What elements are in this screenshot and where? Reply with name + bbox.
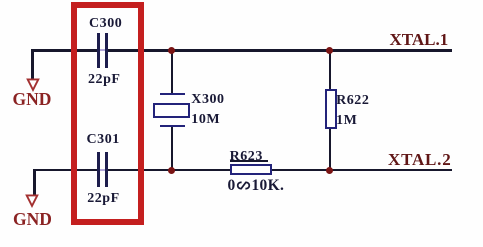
wire: drop to bottom GND — [33, 169, 36, 196]
crystal X300 body — [153, 103, 190, 118]
resistor R622 value 1M — [336, 114, 357, 128]
junction dot bottom crystal — [168, 167, 175, 174]
resistor R622 body — [325, 89, 337, 129]
wire: crystal branch upper stub — [171, 50, 174, 94]
ground symbol top (triangle) — [24, 77, 42, 93]
red highlight rectangle — [71, 2, 144, 225]
resistor R623 value tilde symbol — [236, 181, 251, 190]
crystal X300 label — [191, 93, 224, 107]
resistor R623 label (underlined) — [230, 150, 263, 164]
ground label top GND — [13, 91, 52, 109]
wire: XTAL2 net, bottom horizontal segment 2 — [106, 169, 230, 172]
junction dot top R622 — [326, 47, 333, 54]
junction dot top crystal — [168, 47, 175, 54]
capacitor C300 label — [89, 17, 122, 31]
wire: drop to top GND — [31, 49, 34, 80]
wire: XTAL2 net, bottom horizontal segment 3 — [272, 169, 452, 172]
resistor R623 value "10K." — [252, 178, 285, 194]
capacitor C301 plates — [97, 152, 100, 187]
junction dot bottom R622 — [326, 167, 333, 174]
resistor R622 label — [336, 94, 369, 108]
wire: R622 lower stub — [329, 128, 332, 171]
resistor R623 label underline — [230, 160, 269, 162]
capacitor C300 plates — [97, 33, 100, 68]
net label XTAL2 — [388, 151, 452, 168]
net label XTAL1 — [390, 31, 449, 48]
resistor R623 value "0" — [228, 178, 236, 194]
ground symbol bottom (triangle) — [23, 193, 41, 209]
wire: XTAL1 net, top horizontal right segment — [106, 49, 452, 52]
wire: crystal branch lower stub — [171, 127, 174, 171]
ground label bottom GND — [13, 211, 52, 229]
capacitor C301 value 22pF — [87, 192, 120, 206]
capacitor C300 ghost line — [100, 49, 105, 51]
wire: R622 upper stub — [329, 50, 332, 90]
capacitor C301 ghost line — [100, 169, 105, 171]
capacitor C301 label — [87, 133, 120, 147]
wire: XTAL1 net, top horizontal left segment — [31, 49, 98, 52]
crystal X300 bottom plate — [160, 125, 185, 128]
resistor R623 body — [230, 164, 272, 175]
capacitor C300 value 22pF — [88, 73, 121, 87]
crystal X300 top plate — [160, 93, 185, 96]
wire: XTAL2 net, bottom horizontal segment 1 — [33, 169, 99, 172]
crystal X300 value 10M — [191, 113, 220, 127]
